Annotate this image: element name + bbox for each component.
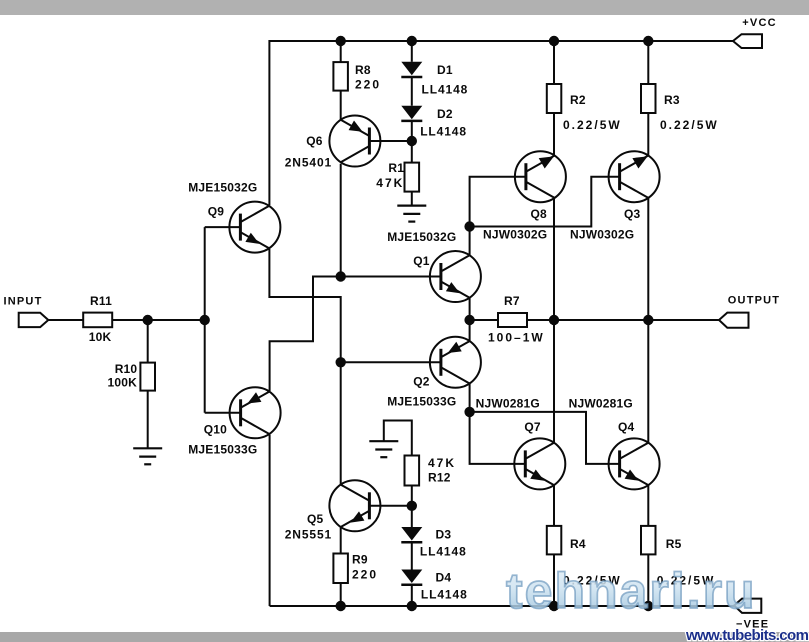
wire input base column <box>204 227 206 413</box>
ground under R10 <box>133 448 162 464</box>
svg-text:10K: 10K <box>89 330 112 344</box>
wire node C to Q8 base <box>470 177 526 227</box>
node dot rail R4 <box>549 601 559 611</box>
resistor R1 <box>405 163 420 192</box>
wire R2 top <box>553 41 555 84</box>
wire R1 to ground <box>411 192 413 206</box>
wire R9 to -VEE rail <box>340 583 342 606</box>
node dot output Q3 <box>643 315 653 325</box>
svg-text:R11: R11 <box>90 294 112 308</box>
svg-text:Q10: Q10 <box>204 423 227 437</box>
svg-text:+VCC: +VCC <box>742 17 776 29</box>
transistor Q7 <box>514 438 565 489</box>
node dot rail R2 <box>549 36 559 46</box>
transistor Q9 <box>229 202 280 253</box>
svg-text:Q8: Q8 <box>531 207 548 221</box>
wire R7 to OUTPUT connector <box>527 319 719 321</box>
svg-text:MJE15032G: MJE15032G <box>188 181 257 195</box>
svg-text:LL4148: LL4148 <box>420 544 467 558</box>
node dot rail R8 <box>336 36 346 46</box>
svg-text:R1: R1 <box>388 161 404 175</box>
wire Q1 collector to node C <box>469 227 471 256</box>
wire Q10 collector down <box>269 435 271 606</box>
wire Q4 to R5 <box>647 485 649 526</box>
resistor R8 <box>333 62 348 91</box>
node dot input R10 <box>143 315 153 325</box>
transistor Q10 <box>230 387 281 438</box>
wire node A to Q1 base <box>341 276 441 278</box>
wire Q6 collector to node A <box>340 164 342 277</box>
wire Q9 emitter to node B <box>269 249 340 362</box>
wire R5 to -VEE rail <box>647 554 649 606</box>
svg-text:R3: R3 <box>664 93 680 107</box>
svg-text:NJW0302G: NJW0302G <box>483 228 547 242</box>
ground under R1 <box>397 206 426 222</box>
transistor Q3 <box>609 151 660 202</box>
wire D3 to D4 <box>411 543 413 570</box>
svg-text:LL4148: LL4148 <box>421 588 468 602</box>
svg-text:D2: D2 <box>437 107 453 121</box>
bottom gray bar <box>0 632 809 642</box>
node dot input bases <box>200 315 210 325</box>
wire Q2 emitter to output node <box>469 320 471 342</box>
svg-text:100K: 100K <box>108 376 138 390</box>
svg-text:NJW0281G: NJW0281G <box>476 396 540 410</box>
wire -VEE rail <box>270 605 734 607</box>
wire ground hook to R12 <box>384 421 412 456</box>
transistor Q1 <box>430 251 481 302</box>
svg-text:Q6: Q6 <box>306 134 323 148</box>
node C <box>464 221 474 231</box>
svg-text:NJW0302G: NJW0302G <box>570 228 634 242</box>
wire node D to Q4 base <box>470 412 620 464</box>
resistor R10 <box>140 363 155 391</box>
resistor R9 <box>333 554 348 584</box>
wire input node to R10 <box>147 320 149 363</box>
connector INPUT <box>19 313 49 327</box>
wire R12 to D3 <box>411 486 413 528</box>
wire INPUT to R11 <box>48 319 83 321</box>
svg-text:Q3: Q3 <box>624 207 641 221</box>
wire R10 to ground <box>147 391 149 449</box>
node B <box>336 357 346 367</box>
wire Q5 emitter to R9 <box>340 527 342 554</box>
svg-text:tehnari.ru: tehnari.ru <box>506 563 757 619</box>
svg-text:Q9: Q9 <box>208 205 225 219</box>
wire Q9 base <box>205 226 241 228</box>
transistor Q5 <box>329 480 380 531</box>
wire node B to Q2 base <box>341 361 441 363</box>
node dot rail R3 <box>643 36 653 46</box>
resistor R2 <box>547 84 562 113</box>
svg-text:Q4: Q4 <box>618 420 635 434</box>
svg-text:Q7: Q7 <box>524 420 541 434</box>
wire output to Q7 <box>553 320 555 443</box>
svg-text:0.22/5W: 0.22/5W <box>660 118 719 132</box>
svg-text:D1: D1 <box>437 63 453 77</box>
connector -VEE <box>734 599 761 613</box>
svg-text:220: 220 <box>352 568 378 582</box>
wire Q1 emitter to output node <box>469 298 471 320</box>
wire R3 top <box>647 41 649 84</box>
resistor R11 <box>83 313 112 328</box>
svg-text:MJE15033G: MJE15033G <box>188 442 257 456</box>
transistor Q4 <box>609 438 660 489</box>
resistor R12 <box>405 456 420 486</box>
svg-text:47K: 47K <box>428 456 456 470</box>
svg-text:OUTPUT: OUTPUT <box>728 294 780 306</box>
svg-text:MJE15033G: MJE15033G <box>387 395 456 409</box>
svg-text:NJW0281G: NJW0281G <box>569 396 633 410</box>
svg-text:D3: D3 <box>436 528 452 542</box>
resistor R4 <box>547 526 562 555</box>
wire Q5 base <box>369 505 411 507</box>
svg-text:Q1: Q1 <box>413 254 430 268</box>
node dot rail R9 <box>336 601 346 611</box>
node dot output Q1 Q2 <box>464 315 474 325</box>
svg-text:2N5401: 2N5401 <box>285 155 332 169</box>
wire Q7 to R4 <box>553 485 555 526</box>
node dot R12 Q5 base <box>407 501 417 511</box>
wire R11 to input node <box>112 319 205 321</box>
node dot output Q8 <box>549 315 559 325</box>
wire D1 to D2 <box>411 78 413 106</box>
wire Q3 collector to output <box>647 198 649 320</box>
wire R2 to Q8 <box>553 113 555 156</box>
diode D4 <box>401 570 422 585</box>
wire D4 to -VEE rail <box>411 585 413 606</box>
svg-text:2N5551: 2N5551 <box>285 528 332 542</box>
wire output node to R7 <box>470 319 498 321</box>
transistor Q8 <box>515 151 566 202</box>
transistor Q2 <box>430 337 481 388</box>
svg-text:R4: R4 <box>570 537 586 551</box>
wire +VCC rail <box>269 41 733 205</box>
wire Q6 base <box>369 140 411 142</box>
svg-text:220: 220 <box>355 77 381 91</box>
wire R4 to -VEE rail <box>553 554 555 606</box>
diode D3 <box>401 527 422 542</box>
svg-text:R7: R7 <box>504 294 520 308</box>
wire node C to Q3 base <box>470 177 620 227</box>
node dot rail R5 <box>643 601 653 611</box>
wire node D to Q7 base <box>470 412 526 464</box>
transistor Q6 <box>329 116 380 167</box>
svg-text:R9: R9 <box>352 553 368 567</box>
resistor R3 <box>641 84 656 113</box>
node dot rail D4 <box>407 601 417 611</box>
svg-text:R5: R5 <box>666 537 682 551</box>
top gray bar <box>0 0 809 15</box>
resistor R7 <box>498 313 527 327</box>
svg-text:INPUT: INPUT <box>4 296 43 308</box>
svg-text:47K: 47K <box>376 176 404 190</box>
connector OUTPUT <box>719 313 749 328</box>
svg-text:MJE15032G: MJE15032G <box>387 230 456 244</box>
svg-text:D4: D4 <box>436 571 452 585</box>
wire output to Q4 <box>647 320 649 443</box>
svg-text:LL4148: LL4148 <box>420 125 467 139</box>
wire diode column top <box>411 41 413 62</box>
diode D2 <box>401 106 422 121</box>
svg-text:R8: R8 <box>355 63 371 77</box>
svg-text:100–1W: 100–1W <box>488 331 545 345</box>
wire D2 to R1 <box>411 122 413 163</box>
node dot rail D1 <box>407 36 417 46</box>
wire R8 top <box>340 41 342 62</box>
svg-text:R10: R10 <box>115 362 138 376</box>
node D <box>464 407 474 417</box>
resistor R5 <box>641 526 656 555</box>
ground at R12 hook <box>369 441 398 457</box>
wire Q8 collector to output <box>553 198 555 320</box>
wire node B to Q5 collector <box>340 362 342 484</box>
svg-text:0.22/5W: 0.22/5W <box>563 118 622 132</box>
svg-text:LL4148: LL4148 <box>422 83 469 97</box>
wire R3 to Q3 <box>647 113 649 156</box>
node dot Q6 base <box>407 136 417 146</box>
svg-text:Q5: Q5 <box>307 512 324 526</box>
node A <box>336 271 346 281</box>
wire Q10 emitter zigzag to node A <box>270 277 341 392</box>
diode D1 <box>401 62 422 77</box>
svg-text:R2: R2 <box>570 93 586 107</box>
svg-text:www.tubebits.com: www.tubebits.com <box>685 627 809 642</box>
wire Q2 collector to node D <box>469 384 471 412</box>
wire R8 bottom to Q6 emitter <box>340 91 342 121</box>
svg-text:R12: R12 <box>428 470 451 484</box>
svg-text:Q2: Q2 <box>413 375 430 389</box>
wire Q10 base <box>205 412 241 414</box>
connector +VCC <box>733 34 762 48</box>
